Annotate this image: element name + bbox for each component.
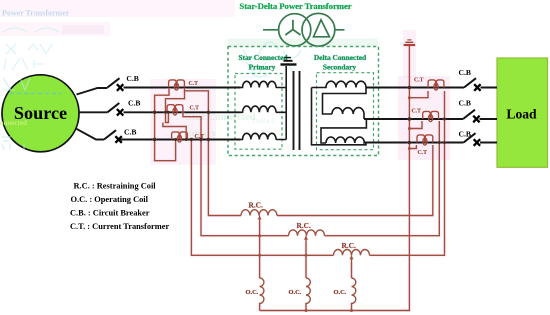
operating coil O.C. 2	[306, 278, 310, 311]
svg-text:C.B: C.B	[459, 68, 471, 77]
svg-text:O.C. : Operating Coil: O.C. : Operating Coil	[71, 195, 149, 204]
secondary winding W4 (delta, phase a)	[312, 81, 367, 87]
svg-text:C.B: C.B	[126, 74, 138, 83]
star (wye) glyph inside T1 left circle	[285, 20, 300, 35]
ground (relay common bus earth, red)	[404, 40, 416, 45]
wire: phase b CB5 to load	[480, 118, 498, 120]
current transformer CT3 (source side, phase C)	[172, 132, 188, 142]
svg-text:C.B: C.B	[124, 128, 136, 137]
restraining coil R.C. 1	[241, 210, 277, 216]
wire: phase a CB4 to load	[481, 87, 498, 89]
wire: CT5 secondary to common bus	[409, 121, 422, 129]
svg-text:C.T: C.T	[189, 81, 199, 87]
svg-text:Delta Connected: Delta Connected	[314, 53, 367, 62]
transformer symbol T1 (two overlapped circles with leads)	[263, 13, 345, 46]
junction dots on phase lines	[153, 86, 446, 144]
operating coil O.C. 3	[352, 278, 356, 311]
primary winding W1 (star, phase A)	[241, 81, 287, 87]
delta glyph inside T1 right circle	[314, 20, 330, 37]
wire: phase A source to CB1	[77, 88, 108, 95]
svg-text:Load: Load	[506, 107, 537, 122]
wire: CT1 secondary lead to CT3 (left outer loop)	[155, 88, 176, 161]
circuit breaker C.B (source side, phase B)	[107, 99, 140, 116]
current transformer CT4 (load side, phase a)	[428, 80, 444, 90]
wire: CT5 secondary to RC2 right end	[325, 121, 440, 236]
svg-text:C.B: C.B	[128, 99, 140, 108]
circuit breaker C.B (load side, phase c)	[459, 130, 481, 146]
transformer core (two bars)	[294, 71, 300, 150]
source (3-phase source circle)	[0, 75, 79, 152]
wire: delta link W6 to W4 (outer return)	[312, 88, 367, 145]
svg-text:C.T: C.T	[195, 134, 205, 140]
wire: R.C. center tap to O.C. (x=306)	[304, 236, 308, 278]
svg-text:C.T: C.T	[414, 78, 424, 84]
wire: CT6 secondary to RC1 right end	[277, 145, 433, 216]
wire: R.C. center tap to O.C. (x=259.6)	[257, 216, 261, 279]
wire: R.C. center tap to O.C. (x=351.5)	[349, 255, 353, 278]
svg-text:Primary: Primary	[249, 63, 276, 72]
wire: CT4 secondary to RC3 right end	[370, 91, 445, 255]
restraining coil R.C. 3	[334, 249, 370, 255]
circuit breaker C.B (load side, phase a)	[459, 68, 481, 91]
wire: star point neutral riser	[285, 66, 287, 140]
svg-text:C.T: C.T	[190, 105, 200, 111]
label: Delta Connected Secondary	[314, 53, 367, 72]
restraining coil R.C. 2	[289, 230, 325, 236]
wire: CT3 secondary to RC3 left end	[191, 140, 333, 256]
primary winding W2 (star, phase B)	[241, 106, 287, 112]
wire: W5 output step	[363, 114, 365, 119]
secondary winding W5 (delta, phase b)	[332, 108, 364, 114]
current transformer CT6 (load side, phase c)	[417, 135, 433, 145]
svg-text:Star-Delta Power Transformer: Star-Delta Power Transformer	[239, 1, 351, 11]
svg-text:Power Transformer: Power Transformer	[2, 9, 70, 18]
wire: CT6 secondary to common bus	[409, 145, 416, 149]
svg-text:Secondary: Secondary	[323, 63, 357, 72]
circuit breaker C.B (source side, phase C)	[104, 128, 136, 143]
svg-text:O.C.: O.C.	[334, 289, 347, 296]
svg-text:O.C.: O.C.	[246, 289, 259, 296]
svg-text:onnected: onnected	[0, 119, 27, 127]
svg-text:R.C.: R.C.	[249, 201, 264, 210]
wire: phase c secondary to CB6	[364, 142, 464, 144]
current transformer CT5 (load side, phase b)	[423, 111, 439, 121]
circuit breaker C.B (source side, phase A)	[107, 74, 138, 91]
wire: CT2 secondary to RC2 left end	[183, 112, 289, 235]
wire: phase A CB1 to primary winding	[124, 87, 241, 89]
wire: phase c CB6 to load	[480, 142, 497, 144]
wire: delta link W4 to W5	[323, 88, 367, 115]
svg-text:C.T: C.T	[418, 150, 428, 156]
wire: CT1 secondary to RC1 left end	[185, 88, 242, 216]
svg-text:R.C.: R.C.	[342, 241, 357, 250]
svg-text:Delta C: Delta C	[252, 116, 277, 125]
wire: CT2-CT3 secondary interlink stair	[163, 123, 186, 140]
svg-text:C.B: C.B	[459, 99, 471, 108]
wire: relay common bus (right vertical + bottom)	[260, 46, 410, 311]
circuit breaker C.B (load side, phase b)	[459, 99, 480, 123]
wire: phase C source to CB3	[76, 128, 105, 139]
primary winding W3 (star, phase C)	[241, 133, 287, 139]
wire: phase B source to CB2	[79, 111, 107, 113]
dashed boundary: delta connected secondary box	[317, 73, 374, 150]
svg-text:R.C.: R.C.	[297, 221, 312, 230]
svg-text:R.C. : Restraining Coil: R.C. : Restraining Coil	[74, 182, 157, 191]
svg-text:Star Connected: Star Connected	[239, 53, 289, 62]
current transformer CT1 (source side, phase A)	[169, 80, 185, 90]
wire: delta link W5 to W6	[321, 119, 366, 143]
wire: phase B CB2 to primary winding	[124, 111, 241, 113]
svg-text:C.T: C.T	[412, 109, 422, 115]
dashed boundary: star connected primary box	[235, 74, 282, 150]
wire: CT1-CT2 secondary interlink	[166, 91, 185, 123]
svg-text:C.B. : Circuit Breaker: C.B. : Circuit Breaker	[70, 209, 150, 218]
operating coil O.C. 1	[260, 278, 264, 311]
dashed boundary: power transformer outer box	[228, 47, 379, 156]
label: Star Connected Primary	[239, 53, 289, 72]
load (3-phase load block)	[497, 58, 548, 167]
svg-text:C.B: C.B	[459, 130, 471, 139]
ground (star point neutral earth)	[281, 58, 297, 65]
junction dots on relay wiring	[258, 96, 411, 312]
current transformer CT2 (source side, phase B)	[167, 105, 183, 115]
wire: CT4 secondary to common bus	[409, 91, 428, 98]
wire: phase b secondary to CB5	[364, 118, 463, 120]
wire: phase a secondary to CB4	[366, 87, 464, 89]
legend text block	[70, 182, 169, 232]
wire: phase C CB3 to primary winding	[120, 139, 241, 141]
svg-text:O.C.: O.C.	[289, 289, 302, 296]
svg-text:C.T. : Current Transformer: C.T. : Current Transformer	[70, 222, 169, 231]
secondary winding W6 (delta, phase c)	[326, 137, 364, 143]
